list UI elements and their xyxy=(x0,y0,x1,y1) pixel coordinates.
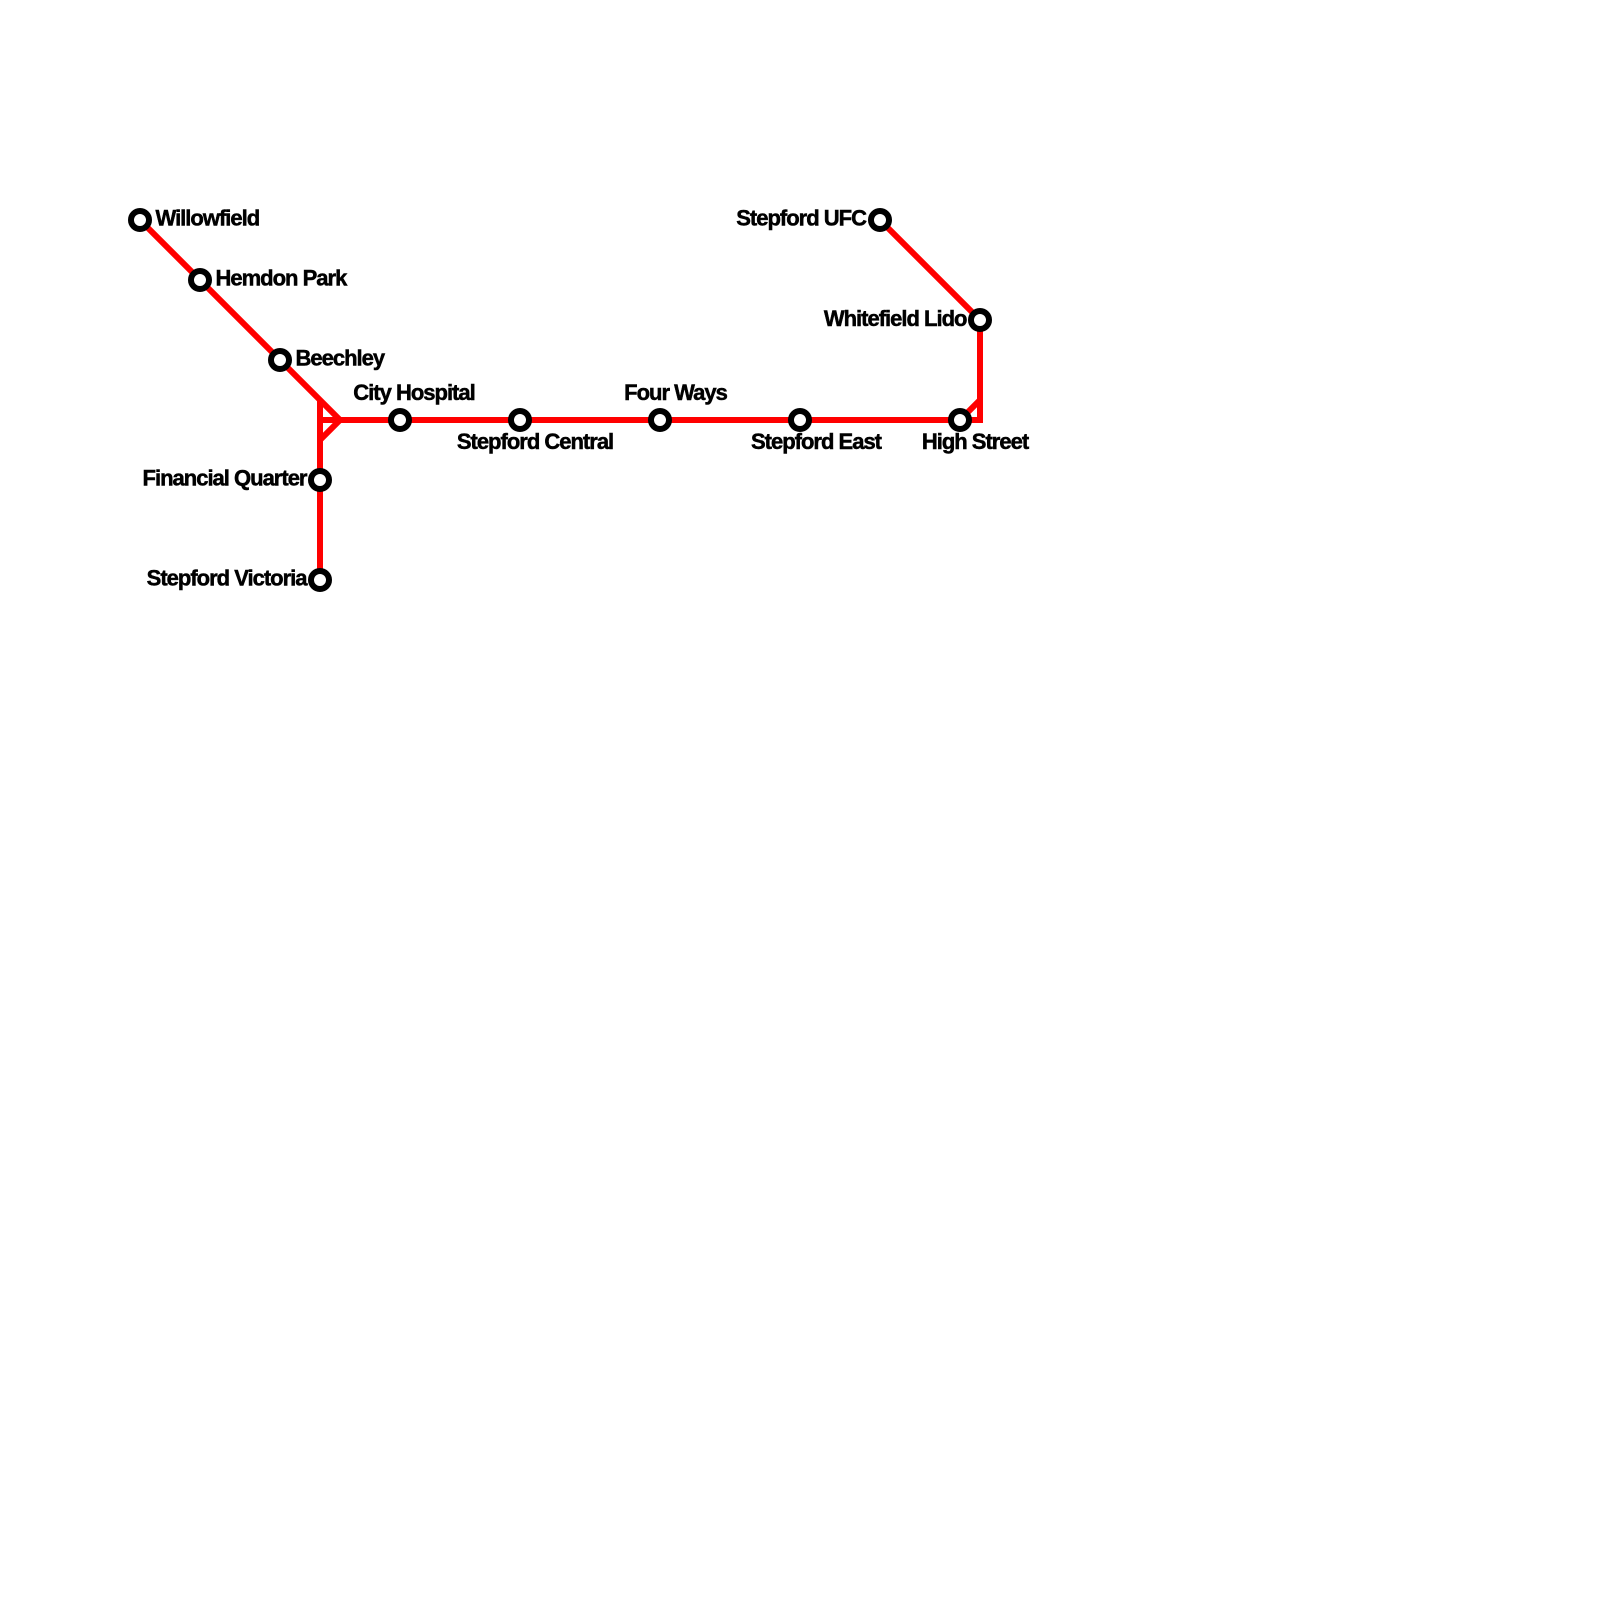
svg-text:City Hospital: City Hospital xyxy=(353,380,474,405)
svg-text:Stepford UFC: Stepford UFC xyxy=(736,206,867,231)
svg-text:Financial Quarter: Financial Quarter xyxy=(143,466,308,491)
wire: red line, vertical branch to Stepford Victoria xyxy=(317,400,323,580)
svg-text:Willowfield: Willowfield xyxy=(156,206,260,231)
svg-text:Four Ways: Four Ways xyxy=(624,380,727,405)
station Financial Quarter xyxy=(311,471,329,489)
wire: main horizontal line and north-east branch to Stepford UFC xyxy=(320,220,980,420)
station Willowfield xyxy=(131,211,149,229)
station City Hospital xyxy=(391,411,409,429)
svg-text:Stepford Victoria: Stepford Victoria xyxy=(147,566,309,591)
svg-text:Hemdon Park: Hemdon Park xyxy=(216,266,349,291)
svg-text:Stepford Central: Stepford Central xyxy=(457,429,613,454)
station Whitefield Lido xyxy=(971,311,989,329)
station Hemdon Park xyxy=(191,271,209,289)
station Stepford East xyxy=(791,411,809,429)
station Stepford Victoria xyxy=(311,571,329,589)
wire: junction chord at High Street corner xyxy=(960,400,980,420)
wire: red line, Willowfield to junction (diagonal) xyxy=(140,220,340,420)
svg-text:Beechley: Beechley xyxy=(296,346,386,371)
station Four Ways xyxy=(651,411,669,429)
svg-text:Stepford East: Stepford East xyxy=(751,429,883,454)
wire: junction chord (south curve) at left wye xyxy=(320,420,340,440)
svg-text:Whitefield Lido: Whitefield Lido xyxy=(824,306,967,331)
station High Street xyxy=(951,411,969,429)
station Beechley xyxy=(271,351,289,369)
station Stepford UFC xyxy=(871,211,889,229)
station Stepford Central xyxy=(511,411,529,429)
svg-text:High Street: High Street xyxy=(922,429,1030,454)
